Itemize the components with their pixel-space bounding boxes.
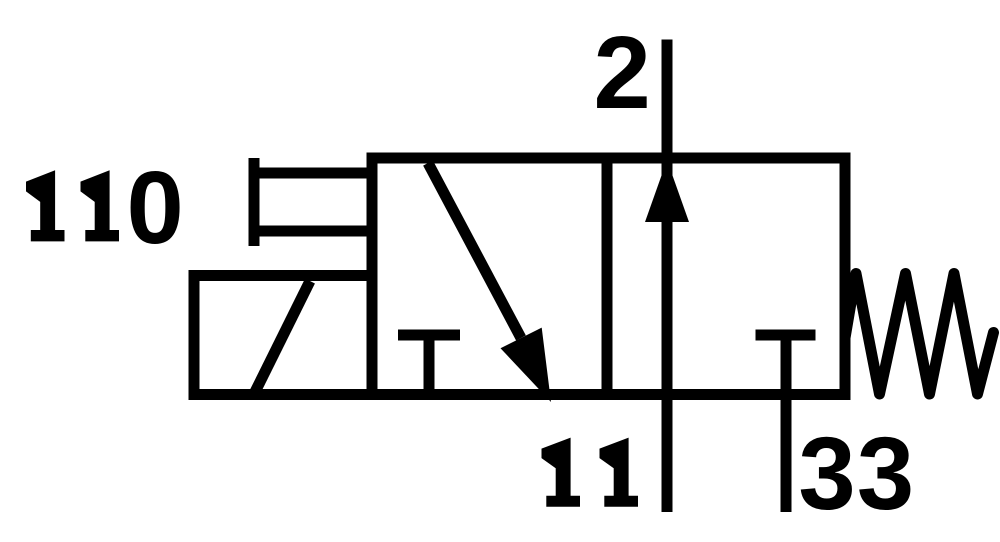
port 3 line bbox=[781, 335, 792, 512]
label 110 digit 1 bbox=[81, 170, 120, 241]
blocked port T left chamber bar bbox=[398, 330, 460, 341]
flow path arrow shaft left chamber bbox=[428, 163, 521, 338]
valve body chamber right bbox=[607, 158, 845, 395]
blocked port T left chamber stem bbox=[424, 335, 435, 394]
svg-text:3: 3 bbox=[857, 416, 914, 531]
solenoid box bbox=[194, 276, 372, 395]
label 110 digit 1 bbox=[26, 170, 65, 241]
port 2 line bbox=[662, 40, 673, 513]
svg-text:0: 0 bbox=[127, 150, 184, 265]
svg-text:2: 2 bbox=[594, 15, 651, 130]
pilot line bottom bbox=[254, 226, 372, 237]
solenoid diagonal bbox=[255, 281, 310, 392]
pilot cap line bbox=[249, 158, 260, 246]
return spring bbox=[845, 274, 994, 395]
pilot line top bbox=[254, 168, 372, 179]
arrowhead down-right left chamber bbox=[501, 328, 552, 402]
svg-text:3: 3 bbox=[798, 416, 855, 531]
arrowhead up to port 2 bbox=[645, 160, 689, 222]
blocked port T right chamber bar bbox=[756, 330, 816, 341]
valve body chamber left bbox=[372, 158, 607, 395]
label 11 bbox=[542, 438, 639, 507]
